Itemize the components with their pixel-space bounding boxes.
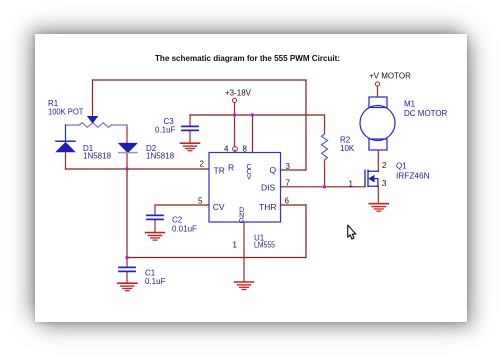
wire +3-18V drop xyxy=(234,103,236,147)
motor M1 xyxy=(360,97,395,150)
svg-text:+V MOTOR: +V MOTOR xyxy=(369,72,411,81)
wire THR right drop xyxy=(305,205,307,258)
wire pin1 ground drop xyxy=(243,222,245,281)
ground under C3 xyxy=(181,143,200,151)
wire D1 bottom lead xyxy=(65,152,67,169)
svg-text:C2: C2 xyxy=(172,216,183,225)
wire pin7 DIS to gate xyxy=(281,186,366,188)
diode D1 xyxy=(56,141,75,152)
wire D2 top lead xyxy=(126,125,128,143)
svg-text:7: 7 xyxy=(286,179,291,188)
wire motor top lead xyxy=(377,87,379,98)
wire supply rail xyxy=(190,114,325,116)
wire C3 stub xyxy=(189,115,191,126)
pin label GND (rotated) xyxy=(239,207,244,225)
wire C1 drop xyxy=(126,169,128,258)
wire D2 bottom lead xyxy=(126,153,128,169)
junction C1/bottom return xyxy=(125,256,128,259)
svg-text:1: 1 xyxy=(233,241,238,250)
svg-text:CV: CV xyxy=(213,202,225,212)
wire bottom return xyxy=(127,257,306,259)
svg-text:1N5818: 1N5818 xyxy=(146,152,175,161)
svg-text:1: 1 xyxy=(349,179,354,188)
svg-text:M1: M1 xyxy=(404,100,416,109)
svg-text:8: 8 xyxy=(243,144,248,153)
svg-text:D: D xyxy=(239,207,244,214)
junction R2/DIS xyxy=(323,185,326,188)
svg-text:THR: THR xyxy=(259,202,276,212)
node pin4 terminal circle xyxy=(233,147,238,152)
mouse cursor xyxy=(348,225,356,239)
junction supply/pin8 xyxy=(251,113,254,116)
wire bottom rail to TR pin2 xyxy=(66,168,210,170)
wire top rail (pot wiper to output) xyxy=(93,79,307,81)
ground under C1 xyxy=(118,283,137,291)
wire pin6 THR stub xyxy=(281,204,307,206)
junction diode rail/C1 branch xyxy=(125,167,128,170)
capacitor C3 xyxy=(182,126,198,130)
wire C1 lower stub xyxy=(126,273,128,283)
svg-text:TR: TR xyxy=(214,165,225,175)
wire pin5 CV stub xyxy=(155,204,209,206)
wire pin8 drop xyxy=(252,115,254,153)
ground under Q1 xyxy=(369,204,388,212)
svg-text:The schematic diagram for the: The schematic diagram for the 555 PWM Ci… xyxy=(155,54,340,63)
wire motor to drain xyxy=(377,150,379,171)
wire C2 stub xyxy=(154,205,156,215)
svg-text:100K POT: 100K POT xyxy=(48,108,83,117)
svg-text:DIS: DIS xyxy=(261,183,276,193)
svg-text:R: R xyxy=(228,163,234,173)
pin label VCC (rotated) xyxy=(246,164,251,182)
node +V MOTOR terminal circle xyxy=(375,82,379,86)
diode D2 xyxy=(119,143,137,152)
svg-text:LM555: LM555 xyxy=(254,241,275,250)
wire C2 lower stub xyxy=(154,221,156,232)
capacitor C2 xyxy=(147,215,163,219)
svg-text:4: 4 xyxy=(224,144,229,153)
resistor R1 potentiometer xyxy=(66,123,128,141)
svg-text:2: 2 xyxy=(382,161,387,170)
node +3-18V terminal circle xyxy=(232,98,236,102)
svg-text:Q1: Q1 xyxy=(396,162,407,171)
wire output right drop xyxy=(305,80,307,170)
svg-text:Q: Q xyxy=(270,165,277,175)
svg-text:0.1uF: 0.1uF xyxy=(155,126,176,135)
junction supply/+3-18V xyxy=(233,113,236,116)
wire Q1 source to ground xyxy=(377,186,379,203)
capacitor C1 xyxy=(119,267,135,271)
svg-text:+3-18V: +3-18V xyxy=(225,89,252,98)
svg-text:C: C xyxy=(246,164,251,171)
R1 wiper arrow xyxy=(88,116,98,123)
resistor R2 xyxy=(322,134,328,160)
svg-text:5: 5 xyxy=(198,197,203,206)
svg-text:10K: 10K xyxy=(340,144,355,153)
wire pin4 stub xyxy=(234,150,236,153)
wire pin3 Q stub xyxy=(281,169,307,171)
svg-text:0.01uF: 0.01uF xyxy=(172,225,197,234)
Q1 arrow xyxy=(369,175,374,182)
ground under pin1 xyxy=(235,282,254,290)
svg-text:6: 6 xyxy=(285,197,290,206)
wire R2 top lead xyxy=(324,115,326,134)
svg-text:0.1uF: 0.1uF xyxy=(145,277,166,286)
svg-text:3: 3 xyxy=(382,179,387,188)
wire C3 lower stub xyxy=(189,132,191,143)
svg-text:3: 3 xyxy=(286,162,291,171)
svg-text:2: 2 xyxy=(200,160,205,169)
transistor Q1 MOSFET xyxy=(365,170,379,186)
svg-text:DC MOTOR: DC MOTOR xyxy=(404,109,448,118)
page xyxy=(35,34,467,322)
op-amp U1 555 timer box xyxy=(209,153,281,223)
svg-text:1N5818: 1N5818 xyxy=(83,152,112,161)
svg-text:IRFZ46N: IRFZ46N xyxy=(396,171,430,180)
wire R2 bottom lead xyxy=(324,160,326,187)
ground under C2 xyxy=(146,233,165,241)
wire C1 stub xyxy=(126,258,128,267)
wire wiper drop xyxy=(92,80,94,116)
